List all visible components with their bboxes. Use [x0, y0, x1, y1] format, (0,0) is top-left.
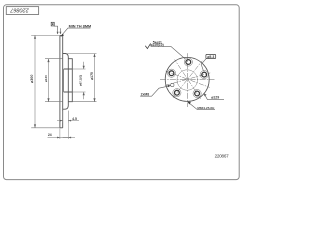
svg-text:4.5: 4.5 [72, 117, 77, 121]
svg-text:24: 24 [48, 133, 52, 137]
svg-text:⌀140: ⌀140 [44, 75, 48, 82]
svg-text:⌀129: ⌀129 [211, 95, 219, 99]
svg-text:M8X1.25-6H: M8X1.25-6H [197, 106, 214, 110]
svg-text:⌀175: ⌀175 [90, 72, 94, 80]
svg-text:MIN TH 8MM: MIN TH 8MM [69, 25, 92, 29]
svg-text:⌀5.3: ⌀5.3 [207, 55, 214, 59]
svg-text:⌀67.1(G): ⌀67.1(G) [78, 75, 82, 86]
svg-text:220867: 220867 [215, 153, 230, 158]
svg-text:220867: 220867 [9, 7, 29, 13]
svg-text:⌀300: ⌀300 [30, 75, 34, 83]
